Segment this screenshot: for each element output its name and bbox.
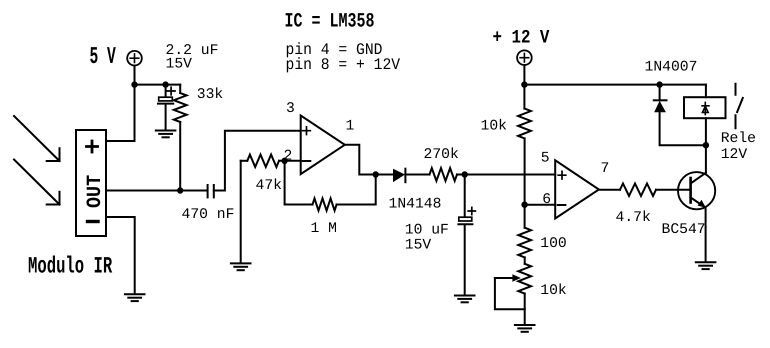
op-amp U1B - mark [558,204,566,206]
ground module [125,293,145,295]
resistor R8 4.7k [620,184,656,196]
resistor R5 10k [518,109,531,139]
op-amp U1A [301,116,345,175]
wire feedback right [337,175,376,205]
node U1A output [373,171,379,177]
svg-text:6: 6 [542,192,551,208]
svg-text:4.7k: 4.7k [616,210,651,226]
svg-text:10 uF: 10 uF [405,222,449,238]
capacitor C2 470nF [207,185,209,197]
wire 5V to module + [106,85,135,141]
wire 47k corner [241,160,248,162]
node OUT/R1 [177,187,183,193]
node 12V rail [521,81,527,87]
transistor Q1 emitter stroke [691,198,704,207]
node collector [703,142,709,148]
svg-text:5 V: 5 V [90,45,117,71]
svg-text:270k: 270k [424,147,459,163]
svg-text:470 nF: 470 nF [182,207,235,223]
potentiometer R7 10k [518,264,531,294]
svg-text:1N4148: 1N4148 [389,196,442,212]
relay K1 box [684,97,726,118]
wire pot to ground [524,294,526,325]
node detector [462,171,468,177]
svg-text:15V: 15V [405,237,432,253]
wire U1B output [599,189,620,191]
wire 12V to rail [523,65,525,85]
transistor Q1 collector stroke [691,173,706,184]
resistor R1 33k lead [179,85,181,93]
wire collector [705,145,707,173]
wire R6 to pot [524,257,526,263]
svg-text:12V: 12V [721,147,748,163]
svg-text:IC = LM358: IC = LM358 [285,10,375,33]
wire 5V to rail [134,66,136,85]
svg-text:10k: 10k [540,283,567,299]
wire C1 top lead [165,85,167,97]
wire 270k to pin5 [457,174,555,176]
wire to C3 [464,175,466,218]
svg-text:47k: 47k [256,178,283,194]
resistor R6 100 [518,228,531,258]
ground emitter [696,261,716,263]
node 5V rail [131,81,137,87]
capacitor C3 10uF plates [459,217,472,221]
node cap C1 tap [162,81,168,87]
relay switch contact [736,84,743,129]
IR arrow 1 [14,116,60,161]
wire 47k to ground [240,161,242,263]
resistor R1 33k [174,93,187,122]
ground 47k [231,262,251,264]
ground C3 [455,295,475,297]
wire D2 top lead [659,85,661,101]
capacitor C3 10uF plus [468,207,475,214]
op-amp U1A + mark [303,127,311,135]
diode D1 1N4148 [393,169,405,183]
relay K1 coil symbol [702,102,709,114]
pot wiper arrow [495,277,513,279]
IR module box [76,130,106,236]
wire 5V rail [135,84,181,86]
resistor R2 47k [247,155,279,167]
IR arrow 2 [14,160,60,205]
capacitor C1 2.2uF plus [167,87,175,95]
svg-text:5: 5 [541,150,550,166]
wire C1 bottom lead [165,105,167,131]
5V supply terminal [127,51,142,66]
svg-text:Modulo IR: Modulo IR [28,253,113,280]
+12V supply terminal [517,50,532,65]
svg-text:Rele: Rele [721,131,756,147]
svg-text:1: 1 [346,118,355,134]
svg-text:BC547: BC547 [662,222,706,238]
wire 47k to pin2 [279,160,301,162]
node pin6 tap [521,202,527,208]
svg-text:100: 100 [540,236,566,252]
op-amp U1B + mark [558,171,566,179]
wire C2 to opamp + [214,131,301,191]
transistor Q1 base bar [689,178,692,203]
diode D2 1N4007 [654,99,667,101]
wire output to diode [376,174,393,176]
ground pot [515,324,535,326]
wire 12V rail [524,84,706,86]
wire 4.7k to base [656,189,691,191]
wire R1 to OUT net [179,122,181,191]
wire D2 bottom loop [660,112,706,145]
svg-text:10k: 10k [481,119,508,135]
node pin2 [281,158,287,164]
node D2 tap [656,81,662,87]
wire OUT net [106,190,207,192]
module - terminal mark [88,220,99,223]
wire emitter to ground [705,208,707,262]
svg-text:pin 8 = + 12V: pin 8 = + 12V [286,57,401,75]
capacitor C1 2.2uF plates [159,97,173,101]
svg-text:33k: 33k [197,87,224,103]
op-amp U1A - mark [303,160,311,162]
svg-text:3: 3 [286,101,295,117]
module + terminal mark [87,141,98,152]
transistor Q1 BC547 body [678,172,715,209]
wire module - to ground [106,217,135,294]
svg-text:+ 12 V: + 12 V [493,27,550,49]
resistor R3 1M [313,198,337,210]
svg-text:15V: 15V [166,56,193,72]
ground C1 [156,130,176,132]
svg-text:1 M: 1 M [311,221,337,237]
svg-text:7: 7 [601,161,610,177]
wire C3 to ground [464,225,466,295]
wire rail to relay [705,85,707,98]
wire pot wiper loop [495,278,525,309]
svg-text:OUT: OUT [84,175,107,208]
wire divider mid [524,138,526,227]
op-amp U1B [555,160,599,218]
wire feedback left [285,161,313,205]
wire U1A output [345,145,376,175]
wire 12V to R5 [523,85,525,109]
svg-text:1N4007: 1N4007 [645,60,698,76]
wire diode to 270k [405,174,429,176]
resistor R4 270k [430,168,458,181]
wire relay to collector node [705,118,707,145]
wire pin6 [525,204,556,206]
